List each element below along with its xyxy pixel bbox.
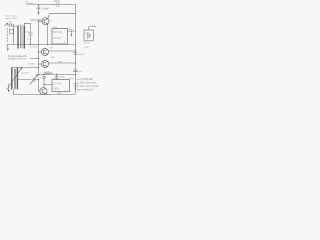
svg-text:500n: 500n — [58, 61, 64, 63]
svg-text:L1: L1 — [25, 1, 28, 4]
svg-text:100 u: 100 u — [54, 88, 61, 91]
svg-text:22mF: 22mF — [54, 1, 60, 3]
svg-text:50n: 50n — [78, 71, 82, 73]
variable arrow T2 — [7, 67, 22, 89]
svg-text:(C? mF: (C? mF — [54, 82, 63, 85]
capacitor C4 — [29, 33, 33, 35]
wire T2 right tap — [17, 79, 31, 81]
transformer T1 core — [21, 25, 22, 48]
transformer T1 left winding — [17, 26, 19, 48]
wire T1 left winding top — [14, 25, 19, 27]
svg-text:500n: 500n — [57, 93, 63, 95]
IC box U1 — [52, 29, 68, 45]
junction dot base1 — [38, 51, 39, 52]
wire primary left lead — [13, 25, 15, 45]
svg-text:+: + — [40, 77, 42, 80]
svg-text:0.5 mF: 0.5 mF — [53, 37, 61, 40]
capacitor C9 — [42, 75, 45, 85]
junction dot base2 — [38, 58, 39, 59]
svg-text:Frame aerials with: Frame aerials with — [8, 55, 27, 58]
svg-text:+: + — [85, 32, 87, 35]
wire bottom rail — [13, 94, 75, 96]
junction dot tee — [38, 74, 39, 75]
capacitor C6 on rail — [74, 70, 78, 72]
capacitor C7 electrolytic — [74, 83, 77, 85]
transistor V3 — [42, 61, 49, 68]
svg-text:500: 500 — [25, 32, 29, 34]
aerial input arrow — [5, 23, 8, 26]
junction dot C9 bottom — [43, 84, 44, 85]
junction dot emitter — [47, 44, 48, 45]
junction dot rail3 — [75, 74, 76, 75]
svg-text:500n: 500n — [60, 76, 66, 78]
wire lower top rail — [39, 74, 76, 76]
junction dot rail2 — [75, 62, 76, 63]
wire base V4 — [39, 80, 40, 92]
wire second rail — [50, 13, 76, 15]
ground rail middle — [7, 44, 76, 46]
svg-text:count 0.5/km: count 0.5/km — [6, 17, 18, 20]
capacitor C2 — [37, 7, 40, 8]
junction dot input — [13, 24, 14, 25]
resistor R1 — [44, 73, 52, 75]
capacitor C5 on rail — [74, 52, 78, 54]
wire emitter V1 down — [47, 24, 49, 45]
wire T2 bottom leads — [12, 89, 13, 95]
svg-text:40 0hm: 40 0hm — [22, 72, 29, 74]
svg-text:L: L — [94, 35, 96, 37]
svg-text:500: 500 — [50, 47, 54, 49]
svg-text:C.07: C.07 — [84, 47, 89, 49]
trimmer box — [10, 30, 14, 34]
junction dot T2 top — [38, 67, 39, 68]
wire base V1 — [39, 20, 43, 21]
wire battery terminal — [89, 27, 96, 30]
wire T1 left winding bottom — [17, 45, 19, 49]
battery B1 — [88, 33, 90, 39]
ground arrow left — [7, 45, 9, 49]
wire V4 emitter to rail — [45, 93, 47, 96]
wire base V2 — [39, 51, 42, 53]
junction dot rail mid — [33, 44, 34, 45]
dashed aerial boundary — [6, 28, 8, 43]
svg-text:JD 0hm: JD 0hm — [28, 63, 36, 65]
battery box — [84, 30, 93, 41]
wire V3 collector to rail — [47, 61, 75, 63]
svg-text:+: + — [64, 41, 66, 44]
svg-text:on 8mm rod; L2 120t: on 8mm rod; L2 120t — [77, 85, 99, 88]
svg-text:frame aerial 12t: frame aerial 12t — [77, 89, 94, 92]
wire top rail right — [59, 4, 75, 6]
wire V2 collector to rail — [47, 49, 75, 51]
junction dot C8 — [38, 79, 39, 80]
wire C8 to vertical — [35, 79, 39, 81]
junction dot E — [56, 74, 57, 75]
svg-text:amplifier 0.5W out: amplifier 0.5W out — [8, 57, 27, 60]
wire T1 secondary top loop — [24, 23, 30, 26]
wire T1 secondary bottom — [23, 45, 25, 49]
ground arrow T2 — [8, 84, 10, 90]
ground arrow under 100k wire — [71, 31, 73, 34]
transformer T1 right winding — [23, 26, 25, 48]
transformer T2 right winding — [16, 68, 18, 89]
wire secondary vertical — [30, 23, 32, 44]
capacitor C3 input — [10, 23, 12, 27]
variable arrow C8 — [30, 75, 38, 85]
transistor V2 — [42, 49, 49, 56]
capacitor C1 — [57, 3, 59, 6]
transformer T2 left winding — [11, 68, 13, 89]
wire from rail to C2 — [38, 5, 40, 7]
long vertical wire — [38, 20, 40, 75]
svg-text:+10mF: +10mF — [78, 54, 86, 56]
svg-text:0.07 mF: 0.07 mF — [53, 31, 62, 34]
box U2 — [52, 80, 70, 92]
wire T2 top lead — [12, 68, 39, 69]
svg-text:La: La — [93, 24, 96, 26]
capacitor C8 variable — [33, 78, 35, 82]
ground arrow C7 — [75, 85, 77, 88]
svg-text:V1: V1 — [50, 21, 53, 23]
wire input to transformer — [8, 24, 14, 26]
transistor V1 — [42, 18, 49, 25]
junction dot A — [30, 44, 31, 45]
svg-text:JD 0hm: JD 0hm — [30, 47, 38, 49]
junction dot D — [43, 74, 44, 75]
inductor L1 — [27, 4, 34, 5]
svg-text:0.1mF: 0.1mF — [84, 43, 91, 45]
wire to box pin — [44, 85, 52, 88]
junction dot B — [38, 44, 39, 45]
junction dot top rail — [38, 4, 39, 5]
wire collector V1 to rail — [48, 14, 50, 19]
transistor V4 — [40, 88, 47, 95]
svg-text:V1-V3 2N1308;: V1-V3 2N1308; — [77, 78, 94, 81]
wire base V3 — [30, 59, 42, 65]
wire right rail — [75, 5, 77, 94]
wire tap to base rail — [31, 19, 43, 21]
ground arrow below C2 — [38, 9, 40, 13]
wire box to right rail — [68, 30, 76, 32]
svg-text:L1 40t 0.3mm wire: L1 40t 0.3mm wire — [77, 81, 97, 84]
svg-text:10n: 10n — [51, 57, 55, 59]
junction dot rail1 — [75, 50, 76, 51]
junction dot base3 — [38, 63, 39, 64]
transformer T2 core — [14, 69, 15, 89]
capacitor C10 — [55, 75, 58, 80]
wire top rail left — [33, 4, 57, 6]
